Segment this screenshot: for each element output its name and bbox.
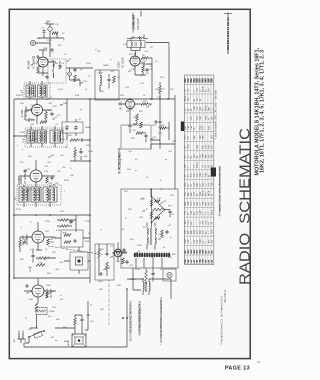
svg-text:220K: 220K bbox=[137, 245, 142, 247]
svg-text:MICA: MICA bbox=[205, 105, 208, 111]
svg-text:47K: 47K bbox=[58, 45, 62, 47]
box FM IF section bbox=[121, 189, 178, 268]
svg-text:68K: 68K bbox=[18, 179, 22, 181]
terminal strip (dark row) bbox=[134, 253, 170, 257]
tube V4 2nd IF bbox=[30, 170, 42, 182]
capacitor C3 bbox=[45, 75, 48, 79]
wire bus x160 down bbox=[151, 99, 175, 144]
svg-text:14K: 14K bbox=[184, 259, 187, 263]
capacitor C11 inside bbox=[107, 78, 110, 82]
svg-text:68K: 68K bbox=[194, 135, 196, 139]
svg-text:IF: 10.7MC FM: IF: 10.7MC FM bbox=[118, 148, 122, 171]
svg-text:T1 IF: T1 IF bbox=[22, 90, 24, 96]
svg-text:68K: 68K bbox=[185, 201, 187, 205]
resistor disc top diag bbox=[155, 200, 161, 203]
wire V3 conn bbox=[25, 99, 52, 124]
box loop antenna bbox=[95, 70, 119, 100]
box AVC network bbox=[61, 230, 83, 247]
table footnote column 2 (rotated tiny text) bbox=[219, 165, 222, 217]
wire mid2 bbox=[70, 147, 90, 161]
resistor R17 inside bbox=[64, 241, 71, 244]
wire transformer right drop bbox=[170, 289, 172, 299]
svg-text:REF: REF bbox=[188, 77, 190, 82]
box ratio filter bbox=[70, 252, 88, 270]
svg-text:68K: 68K bbox=[191, 192, 193, 196]
capacitor C14 bbox=[27, 118, 31, 121]
resistor R23 bbox=[136, 132, 143, 135]
wire V2 out bbox=[140, 58, 152, 99]
svg-text:270K: 270K bbox=[16, 209, 21, 211]
svg-text:CAP: CAP bbox=[190, 125, 193, 130]
connector node bbox=[30, 40, 35, 45]
wire cluster bbox=[57, 215, 76, 232]
svg-text:14K: 14K bbox=[187, 259, 190, 263]
svg-text:MICA: MICA bbox=[202, 190, 205, 196]
svg-text:1W: 1W bbox=[212, 146, 214, 149]
svg-text:V4 12BA6: V4 12BA6 bbox=[24, 173, 27, 184]
resistor R31 in box bbox=[106, 262, 109, 270]
wire box E leads bbox=[67, 99, 76, 136]
resistor R7 bbox=[159, 86, 162, 93]
svg-text:1W: 1W bbox=[185, 165, 187, 168]
stray mark right of page number bbox=[257, 361, 260, 363]
dashed box IF group C bbox=[17, 185, 61, 205]
capacitor C16 bbox=[80, 138, 84, 141]
svg-text:22K: 22K bbox=[20, 259, 24, 261]
svg-text:118V: 118V bbox=[29, 109, 34, 111]
resistor R9 bbox=[45, 112, 48, 119]
tube V5 det-avc bbox=[32, 231, 44, 243]
svg-text:TUB: TUB bbox=[203, 153, 205, 158]
resistor R18 bbox=[47, 239, 50, 245]
capacitor C38 bbox=[25, 284, 29, 287]
resistor R10 bbox=[40, 121, 47, 124]
capacitor C26 bbox=[128, 124, 131, 128]
svg-text:39K: 39K bbox=[100, 91, 104, 93]
svg-text:14K: 14K bbox=[205, 259, 208, 263]
svg-text:CAP: CAP bbox=[199, 210, 202, 215]
svg-text:CER: CER bbox=[194, 106, 196, 111]
svg-text:33K: 33K bbox=[86, 145, 90, 147]
svg-text:REF: REF bbox=[194, 77, 196, 82]
svg-text:PAGE 13: PAGE 13 bbox=[225, 365, 250, 371]
svg-text:REF: REF bbox=[203, 77, 205, 82]
svg-text:10%: 10% bbox=[212, 135, 214, 139]
box osc adjust bbox=[62, 122, 83, 133]
svg-text:14K: 14K bbox=[207, 250, 210, 254]
svg-text:AM LOOP: AM LOOP bbox=[136, 18, 140, 30]
svg-text:RF AMP: RF AMP bbox=[28, 60, 31, 69]
parts list table grid (rotated) bbox=[185, 75, 214, 265]
wire T4 leads bbox=[147, 223, 155, 250]
svg-text:14K: 14K bbox=[210, 259, 213, 263]
svg-text:100K: 100K bbox=[60, 139, 65, 141]
component cluster left of box bbox=[114, 251, 121, 254]
svg-text:6.3V: 6.3V bbox=[129, 109, 134, 111]
svg-text:10%: 10% bbox=[188, 97, 190, 101]
svg-text:2.2M: 2.2M bbox=[116, 285, 121, 287]
capacitor C10 bbox=[145, 68, 148, 72]
svg-text:REF: REF bbox=[200, 77, 202, 82]
wire under strip bbox=[136, 258, 162, 268]
capacitor C21 inside bbox=[73, 239, 77, 242]
svg-text:14K: 14K bbox=[190, 259, 193, 263]
svg-text:14K: 14K bbox=[210, 250, 213, 254]
svg-text:330K: 330K bbox=[16, 95, 21, 97]
svg-text:REF: REF bbox=[197, 77, 199, 82]
box FM tuner upper bbox=[121, 125, 151, 149]
junction small bbox=[150, 98, 152, 100]
resistor R12 bbox=[74, 150, 77, 157]
tube V1 RF amp bbox=[38, 57, 48, 67]
svg-text:14K: 14K bbox=[202, 259, 205, 263]
small parts row bbox=[154, 120, 158, 123]
wire plug to switch bbox=[25, 337, 30, 343]
svg-text:68K: 68K bbox=[64, 341, 68, 343]
wire V6 conn bbox=[118, 99, 141, 124]
svg-text:68K: 68K bbox=[188, 192, 190, 196]
junction dots 215 bbox=[35, 214, 37, 216]
svg-text:14K: 14K bbox=[187, 250, 190, 254]
svg-text:AC: AC bbox=[13, 339, 16, 342]
antenna terminal bbox=[48, 27, 52, 31]
svg-text:22K: 22K bbox=[52, 252, 56, 254]
svg-text:47K: 47K bbox=[203, 125, 205, 129]
svg-text:MICA: MICA bbox=[184, 95, 187, 101]
svg-text:47K: 47K bbox=[194, 182, 196, 186]
svg-text:AVC: AVC bbox=[63, 232, 68, 235]
notes column 3 (rotated tiny) bbox=[160, 297, 163, 345]
svg-text:14K: 14K bbox=[199, 259, 202, 263]
svg-text:14K: 14K bbox=[207, 259, 210, 263]
svg-text:REF: REF bbox=[208, 77, 210, 82]
svg-text:10%: 10% bbox=[191, 201, 193, 205]
capacitor C2 bbox=[50, 48, 54, 51]
resistor R2 bbox=[37, 66, 40, 73]
switch S1 bbox=[29, 331, 44, 338]
svg-text:14K: 14K bbox=[196, 259, 199, 263]
transformer T4 ratio det bbox=[147, 228, 148, 235]
svg-text:2.2M: 2.2M bbox=[52, 106, 57, 108]
svg-text:2.2M: 2.2M bbox=[28, 299, 33, 301]
svg-text:SPKR: SPKR bbox=[68, 340, 70, 346]
svg-text:68K: 68K bbox=[172, 254, 176, 256]
resistor R8 inside bbox=[113, 76, 116, 83]
resistor R20 bbox=[38, 257, 46, 260]
coil L1 bbox=[52, 63, 55, 68]
notes column 1 (rotated tiny) bbox=[130, 301, 133, 342]
svg-text:CONNECTION: CONNECTION bbox=[132, 12, 135, 28]
svg-text:CER: CER bbox=[200, 172, 202, 177]
svg-text:REF: REF bbox=[191, 77, 193, 82]
svg-text:68K: 68K bbox=[191, 230, 193, 234]
dashed box IF group B bbox=[25, 128, 67, 147]
wire speaker branch bbox=[85, 301, 88, 330]
svg-text:1W: 1W bbox=[188, 231, 190, 234]
svg-text:14K: 14K bbox=[184, 250, 187, 254]
svg-text:V2 12BE6: V2 12BE6 bbox=[122, 57, 125, 68]
svg-text:56K: 56K bbox=[28, 329, 32, 331]
svg-text:REF: REF bbox=[185, 77, 187, 82]
svg-text:6.8K: 6.8K bbox=[56, 230, 61, 232]
svg-text:14K: 14K bbox=[196, 250, 199, 254]
svg-text:1W: 1W bbox=[209, 202, 211, 205]
svg-text:22K: 22K bbox=[120, 95, 124, 97]
wire disc feed bbox=[150, 189, 152, 196]
table section header black cell left bbox=[181, 122, 184, 132]
svg-text:16K2, 16T1, 17F1, 2, 3, 4, 5;: 16K2, 16T1, 17F1, 2, 3, 4, 5; 17K1, 3, 4… bbox=[226, 12, 230, 49]
svg-text:47K: 47K bbox=[194, 201, 196, 205]
svg-text:ALL READINGS ±20%: ALL READINGS ±20% bbox=[139, 302, 142, 327]
svg-text:1.2V: 1.2V bbox=[29, 291, 34, 293]
svg-text:6.3V: 6.3V bbox=[33, 139, 38, 141]
svg-text:CER: CER bbox=[212, 182, 214, 187]
wire box G bbox=[99, 244, 107, 276]
tube V6 FM IF bbox=[126, 100, 135, 109]
resistor disc bottom diag bbox=[155, 217, 161, 220]
resistor disc left lower bbox=[150, 212, 153, 219]
wire bus y278 bbox=[14, 277, 90, 279]
svg-text:118V: 118V bbox=[63, 103, 68, 105]
svg-text:270K: 270K bbox=[85, 221, 90, 223]
wire V8 conn bbox=[24, 278, 56, 303]
oscillator shield box bbox=[127, 41, 145, 48]
svg-text:REF: REF bbox=[211, 77, 213, 82]
junction t5 bbox=[142, 278, 144, 280]
svg-text:TUB: TUB bbox=[206, 116, 208, 121]
svg-text:* Used on models 16K2, 16T1 on: * Used on models 16K2, 16T1 only — see n… bbox=[215, 89, 218, 140]
svg-text:14K: 14K bbox=[202, 250, 205, 254]
capacitor C9 bbox=[142, 62, 146, 65]
wire T1 leads bbox=[30, 81, 42, 99]
svg-text:118V: 118V bbox=[131, 69, 136, 71]
svg-text:68K: 68K bbox=[185, 125, 187, 129]
svg-text:14K: 14K bbox=[190, 250, 193, 254]
IF freq note (rotated) bbox=[118, 148, 122, 175]
junction left bus bbox=[13, 135, 15, 137]
trimmer inside E2 bbox=[74, 125, 77, 129]
svg-text:10%: 10% bbox=[185, 230, 187, 234]
svg-text:14K: 14K bbox=[205, 250, 208, 254]
svg-text:100K: 100K bbox=[98, 281, 103, 283]
IF transformer T1b bbox=[38, 85, 48, 97]
svg-text:1MEG: 1MEG bbox=[98, 249, 104, 251]
svg-text:CAP: CAP bbox=[187, 125, 190, 130]
svg-text:capacitor values in mfd unless: capacitor values in mfd unless marked mm… bbox=[219, 166, 222, 212]
capacitor C20 bbox=[69, 220, 72, 224]
capacitor C40 bbox=[80, 318, 83, 322]
wire vertical bus right bbox=[168, 43, 170, 100]
wire V1 cathode bbox=[38, 69, 48, 76]
svg-text:330K: 330K bbox=[64, 180, 69, 182]
IF transformer T3b bbox=[31, 187, 41, 202]
svg-text:14K: 14K bbox=[199, 250, 202, 254]
svg-text:68K: 68K bbox=[209, 106, 211, 110]
wire T2 leads bbox=[14, 126, 55, 147]
svg-text:68K: 68K bbox=[203, 135, 205, 139]
svg-text:CAP: CAP bbox=[199, 115, 202, 120]
svg-text:10%: 10% bbox=[194, 154, 196, 158]
svg-text:47K: 47K bbox=[191, 116, 193, 120]
svg-text:56K: 56K bbox=[63, 327, 67, 329]
svg-text:FROM SOCKET PIN TO B−: FROM SOCKET PIN TO B− bbox=[130, 303, 133, 333]
wire left box drop bbox=[133, 268, 141, 290]
svg-text:12K: 12K bbox=[100, 309, 104, 311]
capacitor C19 bbox=[23, 169, 27, 172]
svg-text:100K: 100K bbox=[46, 285, 51, 287]
wire osc box leads bbox=[131, 38, 140, 55]
svg-text:2.2M: 2.2M bbox=[88, 151, 93, 153]
svg-text:6.8K: 6.8K bbox=[75, 95, 80, 97]
discriminator triangle bbox=[152, 197, 165, 223]
svg-text:1.2V: 1.2V bbox=[33, 63, 38, 65]
bottom-right small imprint (rotated) bbox=[221, 295, 224, 344]
svg-text:MICA: MICA bbox=[196, 162, 199, 168]
svg-text:CAP: CAP bbox=[190, 210, 193, 215]
wire speaker leads bbox=[55, 328, 82, 334]
wire osc feedback bbox=[135, 53, 143, 75]
resistor R21 bbox=[141, 103, 148, 106]
svg-text:6.8K: 6.8K bbox=[30, 249, 35, 251]
wire det out bbox=[33, 250, 56, 263]
loop antenna coil bbox=[131, 38, 144, 39]
svg-text:12K: 12K bbox=[70, 221, 74, 223]
capacitor C27 bbox=[144, 134, 147, 138]
AC plug bbox=[18, 333, 25, 343]
svg-text:14K: 14K bbox=[193, 250, 196, 254]
speaker bbox=[72, 334, 86, 347]
output transformer T5 bbox=[143, 282, 144, 291]
resistor R29 bbox=[145, 271, 148, 281]
svg-text:CAP: CAP bbox=[202, 201, 205, 206]
wire V1 plate bbox=[39, 50, 56, 62]
pot with box bbox=[36, 308, 47, 315]
resistor R13 bbox=[46, 177, 49, 183]
svg-text:1MEG: 1MEG bbox=[85, 127, 91, 129]
svg-text:47K: 47K bbox=[209, 88, 211, 92]
capacitor C18 bbox=[50, 176, 53, 180]
resistor R34 vertical zigzag bbox=[35, 303, 38, 312]
wire antenna feed bbox=[38, 33, 64, 38]
wire h215 bbox=[14, 214, 90, 216]
svg-text:56K: 56K bbox=[28, 156, 32, 158]
resistor R11 bbox=[70, 139, 78, 142]
table section header black cell right bbox=[211, 168, 216, 177]
resistor disc center bbox=[153, 208, 163, 211]
svg-text:220K: 220K bbox=[86, 63, 91, 65]
wire top right horizontal bbox=[146, 42, 169, 44]
resistor R6 bbox=[142, 66, 145, 72]
wire left bus bbox=[13, 99, 15, 278]
wire disc right vertex bbox=[165, 209, 171, 211]
svg-text:CER: CER bbox=[185, 239, 187, 244]
svg-text:6.3V: 6.3V bbox=[83, 81, 88, 83]
wire T5 conn bbox=[127, 279, 171, 295]
voltage callout arrows bbox=[52, 64, 54, 66]
wire V5 conn bbox=[20, 222, 54, 250]
coil L3 in box bbox=[131, 42, 132, 47]
pilot lamp assembly bbox=[163, 269, 176, 281]
resistor R22 bbox=[136, 114, 139, 121]
svg-text:68K: 68K bbox=[212, 154, 214, 158]
svg-text:16K2, 16T1, 17F1, 2, 3, 4, 5;: 16K2, 16T1, 17F1, 2, 3, 4, 5; 17K1, 3, 4… bbox=[260, 50, 266, 173]
capacitor C36 in box bbox=[99, 272, 103, 275]
IF transformer T3a bbox=[19, 187, 29, 202]
svg-text:TUB: TUB bbox=[200, 125, 202, 130]
IF transformer T2b bbox=[38, 130, 47, 143]
resistor R14 bbox=[60, 219, 68, 222]
component dark in box bbox=[76, 257, 83, 265]
wire V4 conn bbox=[19, 160, 55, 185]
svg-text:1W: 1W bbox=[206, 202, 208, 205]
tube V2 converter bbox=[130, 56, 140, 66]
coil L2 bbox=[52, 73, 55, 78]
svg-text:47K: 47K bbox=[194, 173, 196, 177]
IF transformer T1a bbox=[26, 85, 36, 97]
svg-text:1MEG: 1MEG bbox=[130, 279, 136, 281]
wire bottom run bbox=[24, 289, 127, 347]
svg-text:68K: 68K bbox=[206, 154, 208, 158]
svg-text:22K: 22K bbox=[97, 51, 101, 53]
capacitor C13 bbox=[50, 112, 53, 116]
trimmer C4 bbox=[58, 64, 61, 68]
svg-text:220K: 220K bbox=[135, 269, 140, 271]
svg-text:47K: 47K bbox=[130, 239, 134, 241]
wire external antenna lead bbox=[140, 11, 142, 17]
svg-text:V6 19T8: V6 19T8 bbox=[121, 101, 123, 110]
wire top bus bbox=[66, 68, 93, 86]
resistor R5 bbox=[141, 57, 148, 60]
svg-text:10%: 10% bbox=[185, 220, 187, 224]
wire B+ horizontal bus bbox=[14, 98, 175, 100]
svg-text:47K: 47K bbox=[188, 239, 190, 243]
svg-text:47K: 47K bbox=[143, 227, 147, 229]
dash-dot line filament bbox=[108, 280, 110, 325]
resistor disc left upper bbox=[150, 200, 153, 207]
wire avc bbox=[54, 237, 90, 239]
svg-text:CER: CER bbox=[200, 239, 202, 244]
grid cap small parts bbox=[36, 55, 40, 58]
svg-text:100K: 100K bbox=[58, 89, 63, 91]
coil L4 inside bbox=[100, 75, 101, 85]
capacitor C23 bbox=[31, 254, 34, 258]
resistor R33 bbox=[46, 292, 49, 298]
mechanical linkage diagonal bbox=[48, 246, 103, 255]
svg-text:39K: 39K bbox=[28, 267, 32, 269]
svg-text:CER: CER bbox=[188, 144, 190, 149]
dashed box RF coils bbox=[48, 59, 66, 83]
box audio section bbox=[95, 244, 114, 280]
svg-text:270K: 270K bbox=[47, 40, 52, 42]
capacitor C1 bbox=[42, 29, 45, 33]
junction bbox=[89, 139, 91, 141]
svg-text:12K: 12K bbox=[57, 171, 61, 173]
svg-text:MICA: MICA bbox=[202, 86, 205, 92]
resistor R1 bbox=[52, 32, 58, 35]
svg-text:MICA: MICA bbox=[211, 209, 214, 215]
wire right bus x175 bbox=[174, 95, 176, 189]
resistor R16 inside bbox=[64, 234, 71, 237]
top label (rotated tiny) bbox=[132, 12, 135, 32]
svg-text:47K: 47K bbox=[194, 239, 196, 243]
capacitor C35 in box bbox=[105, 252, 108, 256]
wire v6 down bbox=[130, 121, 137, 133]
svg-text:330K: 330K bbox=[43, 48, 48, 50]
wire V7 bbox=[112, 242, 127, 262]
svg-text:270K: 270K bbox=[45, 221, 50, 223]
stray scan mark top right bbox=[224, 13, 232, 15]
svg-text:CER: CER bbox=[212, 229, 214, 234]
